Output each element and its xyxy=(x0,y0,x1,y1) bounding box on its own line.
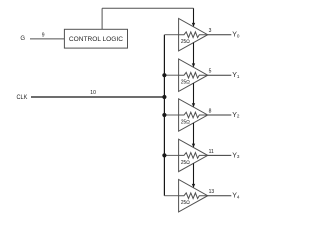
svg-text:3: 3 xyxy=(209,28,212,34)
svg-text:10: 10 xyxy=(90,90,96,96)
svg-text:8: 8 xyxy=(209,108,212,114)
svg-text:11: 11 xyxy=(209,149,214,155)
svg-text:25Ω: 25Ω xyxy=(181,200,190,206)
svg-text:25Ω: 25Ω xyxy=(181,119,190,125)
svg-text:13: 13 xyxy=(209,189,215,195)
svg-text:1: 1 xyxy=(237,74,240,79)
svg-text:CLK: CLK xyxy=(17,95,28,101)
svg-text:25Ω: 25Ω xyxy=(181,39,190,45)
svg-text:5: 5 xyxy=(209,69,212,75)
svg-text:25Ω: 25Ω xyxy=(181,160,190,166)
svg-text:CONTROL LOGIC: CONTROL LOGIC xyxy=(69,36,123,43)
svg-text:3: 3 xyxy=(237,154,240,159)
svg-text:G: G xyxy=(20,36,25,42)
svg-text:9: 9 xyxy=(42,33,45,39)
svg-text:25Ω: 25Ω xyxy=(181,80,190,86)
svg-text:4: 4 xyxy=(237,194,240,199)
svg-text:2: 2 xyxy=(237,114,240,119)
svg-text:0: 0 xyxy=(237,33,240,38)
